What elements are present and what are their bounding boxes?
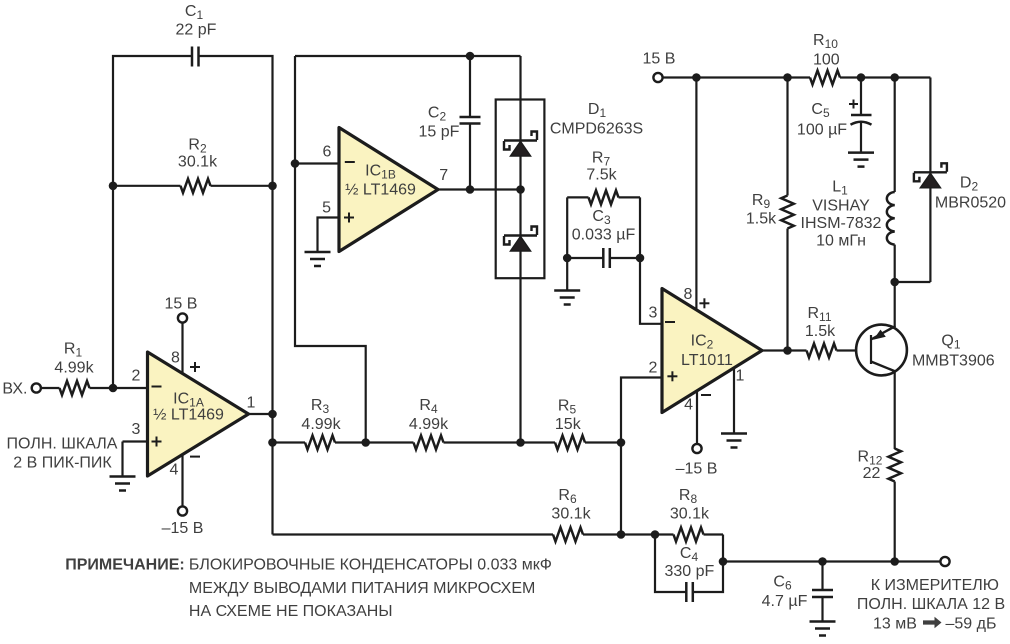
svg-text:30.1k: 30.1k (551, 506, 591, 523)
resistor R3 (273, 397, 366, 450)
svg-text:2: 2 (649, 360, 658, 377)
ground IC1B pin5 (305, 218, 340, 267)
node rail C5 (857, 73, 866, 82)
svg-text:5: 5 (322, 200, 331, 217)
ground IC1A pin3 (110, 442, 136, 491)
15V terminal IC1A pin8 (165, 296, 198, 374)
node rail R9 (783, 73, 792, 82)
svg-text:R4: R4 (419, 397, 438, 416)
svg-text:C1: C1 (185, 3, 204, 22)
wire C1 top loop (113, 56, 273, 535)
svg-text:3: 3 (132, 421, 141, 438)
svg-text:2 В ПИК-ПИК: 2 В ПИК-ПИК (13, 455, 112, 472)
node R5 right (617, 438, 626, 447)
svg-text:½ LT1469: ½ LT1469 (153, 407, 224, 424)
ground C6 (810, 622, 836, 636)
capacitor C5 (797, 78, 872, 153)
node C6 top (818, 557, 827, 566)
svg-text:4: 4 (684, 397, 693, 414)
svg-text:0.033 µF: 0.033 µF (572, 227, 636, 244)
svg-text:R9: R9 (752, 192, 771, 211)
svg-text:100 µF: 100 µF (797, 122, 847, 139)
svg-text:8: 8 (684, 286, 693, 303)
svg-text:30.1k: 30.1k (670, 506, 710, 523)
svg-text:LT1011: LT1011 (681, 352, 733, 369)
wire R7C3 right to IC2 pin3 (640, 197, 662, 323)
wire power rail (663, 76, 810, 78)
svg-text:13 мВ: 13 мВ (873, 616, 917, 633)
svg-text:4.7 µF: 4.7 µF (762, 593, 808, 610)
svg-text:ПОЛН. ШКАЛА: ПОЛН. ШКАЛА (7, 436, 118, 453)
svg-text:4.99k: 4.99k (54, 360, 94, 377)
svg-text:ПОЛН. ШКАЛА 12 В: ПОЛН. ШКАЛА 12 В (857, 596, 1005, 613)
node R6 right (617, 530, 626, 539)
svg-text:7: 7 (439, 167, 448, 184)
svg-text:1: 1 (247, 395, 256, 412)
ground C5 (848, 153, 874, 167)
resistor R7 (567, 150, 640, 205)
inductor L1 (801, 78, 895, 283)
wire feedback bottom (273, 533, 554, 535)
svg-text:–15 В: –15 В (676, 461, 718, 478)
svg-text:1.5k: 1.5k (746, 211, 777, 228)
node IC2 out (783, 346, 792, 355)
node R8 left (651, 530, 660, 539)
resistor R12 (858, 449, 901, 562)
node IC1B pin6 (291, 159, 300, 168)
svg-text:Q1: Q1 (941, 333, 960, 352)
svg-text:10 мГн: 10 мГн (816, 233, 866, 250)
svg-text:R3: R3 (311, 397, 330, 416)
svg-text:4.99k: 4.99k (301, 416, 341, 433)
svg-text:ПРИМЕЧАНИЕ:: ПРИМЕЧАНИЕ: (65, 557, 185, 574)
svg-text:R11: R11 (807, 305, 831, 324)
svg-text:6: 6 (323, 144, 332, 161)
ground IC2 pin1 (721, 368, 747, 448)
op-amp U IC1A (148, 352, 249, 476)
node R4 R5 (516, 438, 525, 447)
svg-text:C6: C6 (773, 574, 792, 593)
svg-text:R6: R6 (558, 487, 577, 506)
capacitor C3 (567, 208, 640, 268)
svg-text:2: 2 (132, 368, 141, 385)
svg-text:15k: 15k (555, 416, 582, 433)
svg-text:C4: C4 (680, 545, 699, 564)
svg-text:7.5k: 7.5k (586, 167, 617, 184)
wire IC1A pin3 (123, 440, 148, 442)
svg-text:330 pF: 330 pF (664, 563, 714, 580)
svg-text:CMPD6263S: CMPD6263S (550, 121, 643, 138)
node R3 R4 (361, 438, 370, 447)
node rail L1 (890, 73, 899, 82)
svg-text:15 В: 15 В (643, 51, 676, 68)
svg-text:4.99k: 4.99k (409, 416, 449, 433)
label note (65, 557, 552, 621)
svg-text:22 pF: 22 pF (176, 22, 217, 39)
svg-text:IHSM-7832: IHSM-7832 (801, 215, 882, 232)
svg-text:VISHAY: VISHAY (812, 198, 870, 215)
15V terminal rail (643, 51, 676, 83)
wire L1 D2 bottom (895, 281, 931, 283)
svg-text:½ LT1469: ½ LT1469 (345, 182, 416, 199)
node C4 right (719, 557, 728, 566)
svg-text:15 В: 15 В (165, 296, 198, 313)
svg-text:К ИЗМЕРИТЕЛЮ: К ИЗМЕРИТЕЛЮ (871, 577, 999, 594)
box D1 outline (496, 100, 545, 279)
svg-text:R1: R1 (64, 341, 83, 360)
node R2 left (109, 182, 118, 191)
label full scale input (7, 436, 118, 472)
resistor R11 (805, 305, 871, 358)
resistor R2 (113, 137, 273, 193)
node C3 left (563, 254, 572, 263)
resistor R8 (655, 487, 723, 542)
svg-text:C2: C2 (428, 105, 447, 124)
output terminal (940, 557, 949, 566)
svg-text:–15 В: –15 В (162, 520, 204, 537)
diode D1 bottom half (504, 227, 537, 252)
label output meter (857, 577, 1005, 633)
svg-text:R10: R10 (813, 32, 838, 51)
svg-text:–59 дБ: –59 дБ (946, 616, 997, 633)
node C3 right (636, 254, 645, 263)
wire R7C3 left (566, 197, 568, 290)
node diode mid (516, 185, 525, 194)
capacitor C1 (176, 3, 217, 67)
capacitor C4 (655, 535, 723, 603)
svg-text:D2: D2 (960, 175, 979, 194)
svg-text:1: 1 (736, 368, 745, 385)
node L1 bottom (890, 278, 899, 287)
svg-text:100: 100 (813, 52, 840, 69)
svg-text:22: 22 (863, 465, 881, 482)
-15V terminal IC1A pin4 (162, 455, 204, 538)
svg-text:3: 3 (649, 305, 658, 322)
node IC1A out (268, 410, 277, 419)
resistor R1 (41, 341, 148, 396)
svg-text:БЛОКИРОВОЧНЫЕ КОНДЕНСАТОРЫ 0.0: БЛОКИРОВОЧНЫЕ КОНДЕНСАТОРЫ 0.033 мкФ (189, 557, 552, 574)
input terminal BX (2, 381, 40, 398)
resistor R10 (810, 32, 930, 85)
svg-text:15 pF: 15 pF (419, 124, 460, 141)
wire IC1B output (438, 188, 521, 190)
svg-text:D1: D1 (588, 101, 607, 120)
svg-text:R5: R5 (558, 398, 577, 417)
-15V terminal IC2 pin4 (676, 391, 718, 478)
svg-text:4: 4 (170, 462, 179, 479)
node R3 left (268, 438, 277, 447)
node rail pin8 (692, 73, 701, 82)
svg-text:MMBT3906: MMBT3906 (912, 353, 995, 370)
capacitor C2 (419, 56, 481, 190)
label D1 (550, 101, 643, 138)
wire IC1B top (295, 55, 521, 57)
svg-text:МЕЖДУ ВЫВОДАМИ ПИТАНИЯ МИКРОСХ: МЕЖДУ ВЫВОДАМИ ПИТАНИЯ МИКРОСХЕМ (189, 580, 535, 597)
node C2 top (466, 52, 475, 61)
wire output (723, 560, 940, 562)
node C2 bottom (466, 185, 475, 194)
op-amp U IC2 (662, 289, 762, 413)
resistor R4 (366, 397, 521, 450)
svg-text:C3: C3 (592, 208, 611, 227)
capacitor C6 (762, 562, 833, 622)
svg-text:8: 8 (171, 350, 180, 367)
wire IC1B pin6 net (295, 56, 366, 443)
svg-text:MBR0520: MBR0520 (935, 195, 1006, 212)
wire IC2 pin8 (695, 78, 697, 311)
wire IC2 out (762, 349, 807, 351)
op-amp U IC1B (339, 128, 438, 252)
diode D2 (914, 78, 1006, 283)
svg-text:L1: L1 (832, 179, 848, 198)
resistor R5 (521, 398, 622, 450)
svg-text:R8: R8 (679, 487, 698, 506)
svg-text:НА СХЕМЕ НЕ ПОКАЗАНЫ: НА СХЕМЕ НЕ ПОКАЗАНЫ (189, 603, 393, 620)
svg-text:1.5k: 1.5k (805, 323, 836, 340)
wire IC2 pin2 (621, 378, 662, 535)
node R1 / feedback (109, 384, 118, 393)
svg-text:C5: C5 (811, 101, 830, 120)
wire diode chain (519, 56, 521, 443)
resistor R9 (746, 78, 794, 351)
transistor Q1 (856, 282, 995, 449)
svg-text:30.1k: 30.1k (178, 154, 218, 171)
node R12 bottom (890, 557, 899, 566)
ground R7C3 (554, 291, 580, 305)
diode D1 top half (504, 132, 537, 157)
node R2 right (268, 182, 277, 191)
wire IC1A output (249, 413, 273, 415)
svg-text:ВХ.: ВХ. (2, 381, 27, 398)
resistor R6 (551, 487, 655, 542)
